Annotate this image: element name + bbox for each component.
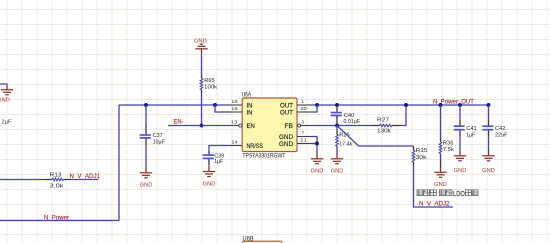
svg-text:R15: R15 [416, 148, 428, 154]
wire C42 bottom lead [488, 137, 490, 150]
svg-text:GND: GND [331, 169, 344, 175]
svg-text:N_Power: N_Power [44, 214, 69, 221]
svg-text:2µF: 2µF [2, 120, 12, 126]
svg-text:NR/SS: NR/SS [247, 144, 264, 150]
resistor R27 [380, 124, 392, 127]
resistor R36 [439, 142, 442, 154]
pin 20 OUT [297, 111, 311, 113]
svg-text:GND: GND [482, 168, 495, 174]
wire NR/SS to C39 [209, 146, 229, 151]
svg-text:EN: EN [247, 124, 255, 130]
pin 7 GND [297, 136, 311, 138]
wire R36 bottom lead [440, 154, 442, 161]
ground below U6A [316, 153, 318, 158]
ground top (above R65) [200, 43, 204, 45]
wire C41 top lead [459, 105, 461, 119]
op-amp U6A body [242, 98, 297, 152]
wire R15 to N_V_ADJ2 [413, 162, 415, 166]
svg-text:130k: 130k [377, 129, 391, 135]
svg-text:20: 20 [300, 106, 307, 112]
svg-text:C40: C40 [344, 113, 355, 119]
resistor R15 [412, 151, 415, 163]
pin 1 OUT [297, 104, 311, 106]
svg-text:3.0k: 3.0k [50, 183, 64, 189]
svg-text:16: 16 [231, 106, 238, 112]
resistor R26 [336, 135, 339, 147]
svg-text:GND: GND [140, 183, 153, 189]
annotation Chinese note (simulated glyphs) [417, 190, 423, 196]
svg-text:10µF: 10µF [153, 140, 165, 146]
node junction R65/EN [200, 124, 204, 128]
wire R65 to EN rail [201, 90, 203, 93]
svg-text:1µF: 1µF [466, 132, 475, 138]
pin 14 NR/SS [229, 145, 242, 147]
node junction pin16 branch [213, 103, 217, 107]
node junction C42 [487, 103, 491, 107]
resistor R65 [200, 78, 203, 90]
capacitor C41 [459, 119, 461, 126]
capacitor C39 [208, 150, 210, 155]
pin 15 IN [229, 104, 242, 106]
wire C37 tap [145, 105, 147, 123]
svg-text:GND: GND [279, 135, 294, 141]
svg-text:GND: GND [279, 142, 294, 148]
svg-text:N_V_ADJ1: N_V_ADJ1 [70, 173, 101, 180]
svg-text:IN: IN [247, 103, 253, 109]
svg-text:7.5k: 7.5k [443, 147, 454, 153]
wire R13 right lead [64, 179, 71, 181]
pin 21 GND [297, 143, 311, 145]
node junction R36 [439, 103, 443, 107]
pin 3 FB (inverted) [301, 125, 311, 127]
svg-text:GND: GND [0, 97, 10, 103]
svg-text:30k: 30k [416, 155, 427, 161]
wire OUT rail [311, 104, 489, 106]
wire EN rail [168, 125, 229, 127]
wire pin16 branch [215, 105, 229, 112]
wire C39 to ground [208, 164, 210, 166]
capacitor C37 [145, 123, 147, 135]
wire IN rail [119, 104, 229, 106]
node junction C40 top [335, 103, 339, 107]
pin 13 EN (inverted) [229, 125, 238, 127]
wire FB diagonal to R15 [337, 126, 414, 147]
wire R15 top lead [413, 146, 415, 147]
node junction pin20 branch [315, 103, 319, 107]
svg-text:14: 14 [231, 140, 238, 146]
svg-text:C41: C41 [466, 126, 477, 132]
wire R36 top lead [440, 105, 442, 139]
wire R27 right to OUT rail [392, 125, 400, 127]
svg-text:OUT: OUT [280, 110, 293, 116]
ground below C41 [459, 150, 461, 155]
svg-text:OUT: OUT [280, 103, 293, 109]
ground below C39 [208, 166, 210, 171]
svg-text:GND: GND [194, 38, 207, 44]
resistor R13 [52, 178, 64, 181]
node junction C37 tap [144, 103, 148, 107]
svg-text:22uF: 22uF [495, 132, 508, 138]
svg-text:100k: 100k [204, 84, 217, 90]
svg-text:GND: GND [203, 181, 216, 187]
svg-text:C37: C37 [153, 133, 163, 139]
svg-text:0.01µF: 0.01µF [344, 119, 361, 125]
svg-text:13: 13 [231, 120, 238, 126]
svg-text:1µF: 1µF [214, 159, 223, 165]
svg-text:15: 15 [231, 99, 238, 105]
svg-text:R65: R65 [204, 78, 215, 84]
svg-text:17.4k: 17.4k [339, 141, 352, 147]
ground below R26 [336, 153, 338, 158]
svg-text:GND: GND [454, 168, 467, 174]
node junction pin21 [315, 142, 319, 146]
svg-text:7: 7 [301, 131, 304, 137]
svg-text:C42: C42 [495, 126, 506, 132]
node junction FB [335, 124, 339, 128]
wire N_Power vertical riser [118, 105, 120, 221]
wire N_Power horizontal entry [0, 220, 119, 222]
pin 16 IN [229, 111, 242, 113]
wire C40 top lead [336, 105, 338, 113]
svg-text:R27: R27 [377, 118, 389, 124]
wire R13 left lead [0, 179, 46, 181]
svg-text:TPS7A3301RGWT: TPS7A3301RGWT [242, 152, 285, 159]
ground left edge (cut off) [0, 84, 7, 86]
capacitor C40 [331, 112, 342, 114]
wire FB rail [311, 125, 372, 127]
svg-text:GND: GND [311, 169, 324, 175]
ground below C37 [145, 167, 147, 172]
wire pins 7/21 to ground [311, 137, 317, 154]
wire GND to R65 [201, 53, 203, 74]
svg-text:LDO: LDO [453, 191, 465, 198]
ground below C42 [488, 150, 490, 155]
svg-text:GND: GND [434, 182, 447, 188]
svg-text:1: 1 [301, 99, 304, 105]
svg-text:N_V_ADJ2: N_V_ADJ2 [419, 201, 450, 208]
svg-text:21: 21 [300, 138, 307, 144]
wire C40 bottom lead [336, 116, 338, 126]
capacitor C42 [488, 119, 490, 126]
svg-text:R13: R13 [50, 173, 62, 179]
wire C37 to ground [145, 146, 147, 167]
svg-text:R36: R36 [443, 141, 454, 147]
wire R26 leads [336, 126, 338, 132]
wire C41 bottom lead [459, 137, 461, 150]
svg-text:FB: FB [285, 124, 294, 130]
ground below R36 [440, 167, 442, 172]
wire C42 top lead [488, 105, 490, 119]
node junction R27/OUT [404, 103, 408, 107]
op-amp U6B body (cut off) [243, 241, 283, 243]
wire pin20 branch [311, 105, 317, 112]
svg-text:IN: IN [247, 110, 253, 116]
svg-text:EN-: EN- [174, 119, 184, 125]
svg-text:3: 3 [301, 120, 304, 126]
node junction C41 [458, 103, 462, 107]
